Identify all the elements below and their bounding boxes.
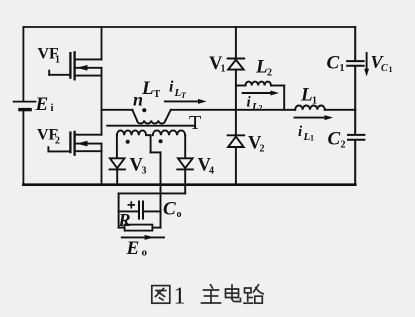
resistor R box [125,225,153,231]
wire secondary right end down to V4 [184,135,186,157]
wire output left vertical [118,193,120,227]
svg-text:4: 4 [209,166,214,177]
capacitor C1 [347,27,363,110]
diode V4 [177,158,193,184]
svg-text:2: 2 [55,136,60,147]
wire bottom rail [23,183,355,186]
caption glyph 路 [244,285,263,303]
svg-text:o: o [142,247,148,259]
svg-text:i: i [51,102,54,114]
svg-text:3: 3 [142,166,147,177]
polarity dot secondary left [126,140,130,144]
voltage arrow VC1 (down) [364,53,369,77]
transformer secondary left winding (bumps up) [117,130,151,135]
transistor Q VF1 (MOSFET) [49,52,101,79]
svg-text:C: C [328,129,341,150]
svg-text:2: 2 [267,68,272,79]
polarity dot secondary right [159,139,163,143]
svg-text:T: T [154,89,161,100]
inductor LT (primary winding, scallops down) [132,110,171,124]
wire center tap vertical to output (crosses rails) [160,152,162,227]
transformer T core line [107,125,194,127]
wire midpoint to transformer primary [102,109,133,111]
caption glyph 主 [202,285,221,303]
wire middle rail (transformer to C1/C2 leg) [171,109,295,111]
wire L2 to downturn [271,85,284,87]
caption glyph 电 [226,285,241,302]
diode V1 [228,27,245,110]
svg-text:1: 1 [340,63,345,74]
wire middle rail right segment [325,109,355,111]
wire MOSFET-leg vertical: VF1 drain to top rail [101,27,103,59]
capacitor Co plates [139,202,143,219]
svg-text:2: 2 [341,140,346,151]
capacitor Co left wire [119,210,139,212]
wire V4 leg extension below bottom rail [184,185,186,194]
resistor R right wire [152,227,160,229]
current arrow iLT [165,99,207,104]
svg-text:C: C [163,199,176,220]
wire L2 downturn to middle rail [283,86,285,110]
svg-text:2: 2 [259,104,263,113]
transistor Q VF2 (MOSFET) [48,132,101,155]
svg-text:1: 1 [312,96,317,107]
svg-text:T: T [189,112,201,134]
svg-text:C: C [327,53,340,74]
wire secondary left end down to V3 [116,135,118,157]
wire center tap jog [151,151,161,153]
wire center tap down [150,135,152,152]
inductor L2 (bumps up) [245,82,271,86]
svg-text:E: E [35,94,49,115]
svg-text:o: o [177,209,182,220]
node n polarity dot of LT [142,108,146,112]
svg-text:1: 1 [389,65,393,74]
current arrow iL1 [295,115,334,120]
svg-text:2: 2 [260,144,265,155]
wire left vertical lower (Ei to bottom rail) [22,111,24,185]
wire MOSFET-leg vertical: VF2 source to bottom rail [101,144,103,185]
diode V3 [110,158,125,184]
resistor R left wire [119,227,125,229]
diode V2 [228,110,245,185]
battery Ei long plate [14,101,36,103]
svg-text:1: 1 [310,134,314,143]
svg-text:E: E [126,238,140,259]
svg-text:L: L [141,78,154,99]
battery Ei short plate [20,108,30,111]
wire output sub-line [119,192,186,194]
voltage arrow Eo [122,235,164,240]
wire left vertical upper (Ei to top rail) [22,27,24,101]
svg-text:L: L [255,57,268,78]
wire MOSFET-leg vertical: VF1 source to VF2 drain (midpoint) [101,68,103,135]
svg-text:L: L [300,85,313,106]
transformer secondary right winding (bumps up) [153,130,185,135]
inductor L2 branch wire [236,85,246,87]
capacitor Co right wire [144,210,161,212]
caption glyph 图 [152,286,170,304]
current arrow iL2 [243,91,279,96]
wire top rail [23,26,355,28]
svg-text:1: 1 [221,64,226,75]
plus sign of Co [128,202,134,208]
svg-text:i: i [169,79,174,96]
svg-text:1: 1 [55,55,60,66]
inductor L1 (bumps up on middle rail) [295,106,325,110]
svg-text:C: C [381,63,388,74]
svg-text:1: 1 [174,284,186,310]
capacitor C2 [348,110,364,185]
